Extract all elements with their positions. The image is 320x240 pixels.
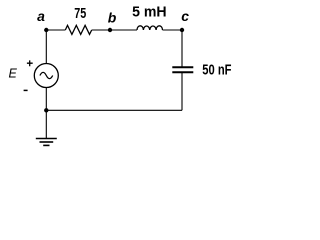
wire capacitor bottom plate down to bottom rail [181, 73, 183, 110]
bottom rail wire [46, 109, 182, 111]
ground symbol line 1 [36, 138, 57, 140]
node c junction dot [180, 28, 184, 32]
source minus sign [24, 89, 28, 91]
wire source bottom to junction [45, 87, 47, 110]
source plus sign [27, 60, 33, 66]
AC source E circle [34, 64, 58, 88]
svg-text:a: a [37, 8, 45, 24]
ground symbol line 2 [40, 141, 54, 143]
wire resistor to inductor (through node b) [92, 29, 137, 31]
node a junction dot [44, 28, 48, 32]
inductor 5 mH [137, 26, 163, 30]
capacitor C 50 nF bottom plate [172, 71, 193, 73]
svg-text:75: 75 [74, 5, 86, 22]
svg-text:c: c [181, 8, 189, 24]
wire inductor to node c [163, 29, 183, 31]
svg-text:E: E [9, 67, 18, 81]
wire a to resistor [46, 29, 65, 31]
node b junction dot [108, 28, 112, 32]
svg-text:50 nF: 50 nF [202, 62, 231, 79]
bottom junction dot [44, 108, 48, 112]
capacitor C 50 nF top plate [172, 66, 193, 68]
wire node c down to capacitor top plate [181, 30, 183, 67]
wire junction down to ground [45, 110, 47, 138]
wire node a down to source top [45, 30, 47, 64]
resistor 75 [65, 25, 91, 34]
svg-text:5 mH: 5 mH [132, 3, 167, 20]
AC source sine wave [40, 72, 53, 78]
svg-text:b: b [108, 9, 117, 25]
ground symbol line 3 [43, 144, 49, 146]
